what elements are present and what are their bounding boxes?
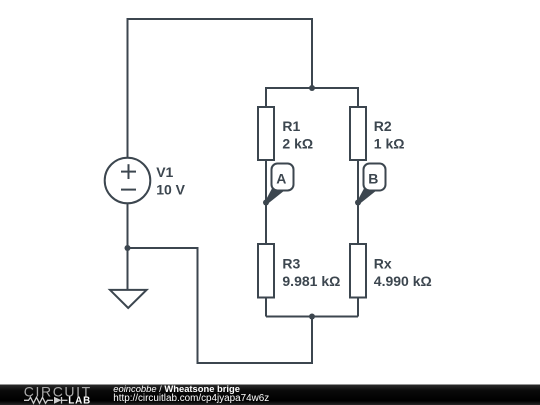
svg-text:V1: V1 bbox=[156, 164, 173, 180]
svg-text:R3: R3 bbox=[282, 256, 300, 272]
svg-text:10 V: 10 V bbox=[156, 182, 185, 198]
svg-text:2 kΩ: 2 kΩ bbox=[282, 136, 313, 152]
svg-text:Rx: Rx bbox=[374, 256, 392, 272]
svg-text:B: B bbox=[368, 171, 378, 187]
svg-text:R1: R1 bbox=[282, 118, 300, 134]
svg-text:4.990 kΩ: 4.990 kΩ bbox=[374, 273, 432, 289]
svg-text:R2: R2 bbox=[374, 118, 392, 134]
svg-text:A: A bbox=[276, 171, 286, 187]
svg-text:http://circuitlab.com/cp4jyapa: http://circuitlab.com/cp4jyapa74w6z bbox=[113, 393, 269, 404]
svg-text:1 kΩ: 1 kΩ bbox=[374, 136, 405, 152]
svg-text:LAB: LAB bbox=[68, 396, 91, 405]
svg-text:9.981 kΩ: 9.981 kΩ bbox=[282, 273, 340, 289]
